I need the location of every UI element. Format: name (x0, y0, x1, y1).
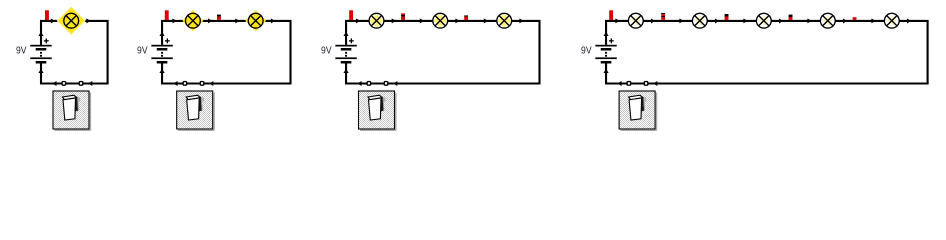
svg-text:9V: 9V (321, 45, 332, 56)
svg-text:9V: 9V (137, 45, 148, 56)
svg-text:9V: 9V (581, 45, 592, 56)
svg-text:9V: 9V (16, 45, 27, 56)
